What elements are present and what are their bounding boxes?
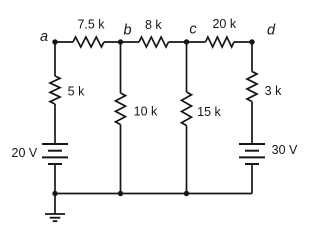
wire node b down to resistor 10k bbox=[120, 42, 122, 93]
svg-text:7.5 k: 7.5 k bbox=[77, 18, 105, 32]
value label 20 V bbox=[12, 146, 38, 160]
junction dot node c bbox=[184, 39, 189, 44]
value label 15 k bbox=[197, 105, 221, 119]
wire node c down to resistor 15k bbox=[186, 42, 188, 92]
svg-text:30 V: 30 V bbox=[272, 143, 298, 157]
junction dot node d bbox=[249, 39, 254, 44]
wire node a down to resistor 5k bbox=[54, 42, 56, 76]
resistor 5 k (branch a) bbox=[50, 76, 60, 104]
svg-text:8 k: 8 k bbox=[145, 18, 162, 32]
svg-text:20 V: 20 V bbox=[12, 146, 38, 160]
battery 30 V plate short bottom bbox=[245, 163, 259, 165]
wire node c to resistor 20k bbox=[187, 41, 206, 43]
battery 20 V plate long bbox=[42, 156, 68, 158]
resistor 10 k (branch b) bbox=[116, 93, 126, 125]
junction dot bottom of branch c bbox=[184, 191, 189, 196]
svg-text:a: a bbox=[40, 29, 48, 45]
ground symbol bar 3 bbox=[53, 220, 58, 222]
wire node b to resistor 8k bbox=[121, 41, 140, 43]
ground symbol bar 2 bbox=[50, 217, 61, 219]
value label 30 V bbox=[272, 143, 298, 157]
svg-text:15 k: 15 k bbox=[197, 105, 221, 119]
resistor 15 k (branch c) bbox=[182, 92, 192, 126]
wire node a to resistor 7.5k bbox=[55, 41, 73, 43]
wire resistor 7.5k to node b bbox=[104, 41, 121, 43]
svg-text:b: b bbox=[123, 23, 131, 39]
resistor 3 k (branch d) bbox=[247, 72, 257, 102]
battery 20 V plate long top bbox=[42, 143, 68, 145]
svg-text:20 k: 20 k bbox=[212, 17, 236, 31]
wire battery 20V to bottom node bbox=[54, 164, 56, 194]
resistor 7.5 k (a-b) bbox=[73, 37, 104, 47]
ground symbol bar 1 bbox=[45, 213, 65, 215]
resistor 20 k (c-d) bbox=[206, 37, 235, 47]
svg-text:d: d bbox=[267, 23, 276, 39]
wire bottom rail bbox=[55, 193, 252, 195]
svg-text:3 k: 3 k bbox=[265, 84, 282, 98]
svg-text:5 k: 5 k bbox=[68, 85, 85, 99]
value label 10 k bbox=[134, 105, 158, 119]
wire ground stub bbox=[54, 194, 56, 215]
junction dot node b bbox=[118, 39, 123, 44]
wire battery 30V to bottom right corner bbox=[251, 164, 253, 194]
label node b bbox=[123, 23, 131, 39]
junction dot bottom left (ground node) bbox=[52, 191, 57, 196]
wire resistor 10k to bottom wire bbox=[120, 125, 122, 194]
value label 5 k bbox=[68, 85, 85, 99]
battery 30 V plate long bbox=[239, 156, 265, 158]
battery 20 V plate short bottom bbox=[48, 163, 62, 165]
svg-text:10 k: 10 k bbox=[134, 105, 158, 119]
wire resistor 15k to bottom wire bbox=[186, 126, 188, 194]
wire resistor 5k to battery 20V bbox=[54, 104, 56, 144]
resistor 8 k (b-c) bbox=[139, 37, 169, 47]
value label 7.5 k bbox=[77, 18, 105, 32]
value label 3 k bbox=[265, 84, 282, 98]
svg-text:c: c bbox=[189, 22, 197, 38]
wire node d down to resistor 3k bbox=[251, 42, 253, 72]
battery 30 V plate long top bbox=[239, 143, 265, 145]
battery 20 V plate short bbox=[48, 150, 62, 152]
label node c bbox=[189, 22, 197, 38]
label node a bbox=[40, 29, 48, 45]
label node d bbox=[267, 23, 276, 39]
battery 30 V plate short bbox=[245, 150, 259, 152]
value label 20 k bbox=[212, 17, 236, 31]
wire resistor 8k to node c bbox=[169, 41, 187, 43]
wire resistor 3k to battery 30V bbox=[251, 102, 253, 145]
value label 8 k bbox=[145, 18, 162, 32]
wire resistor 20k to node d bbox=[234, 41, 252, 43]
junction dot bottom of branch b bbox=[118, 191, 123, 196]
junction dot node a bbox=[52, 39, 57, 44]
